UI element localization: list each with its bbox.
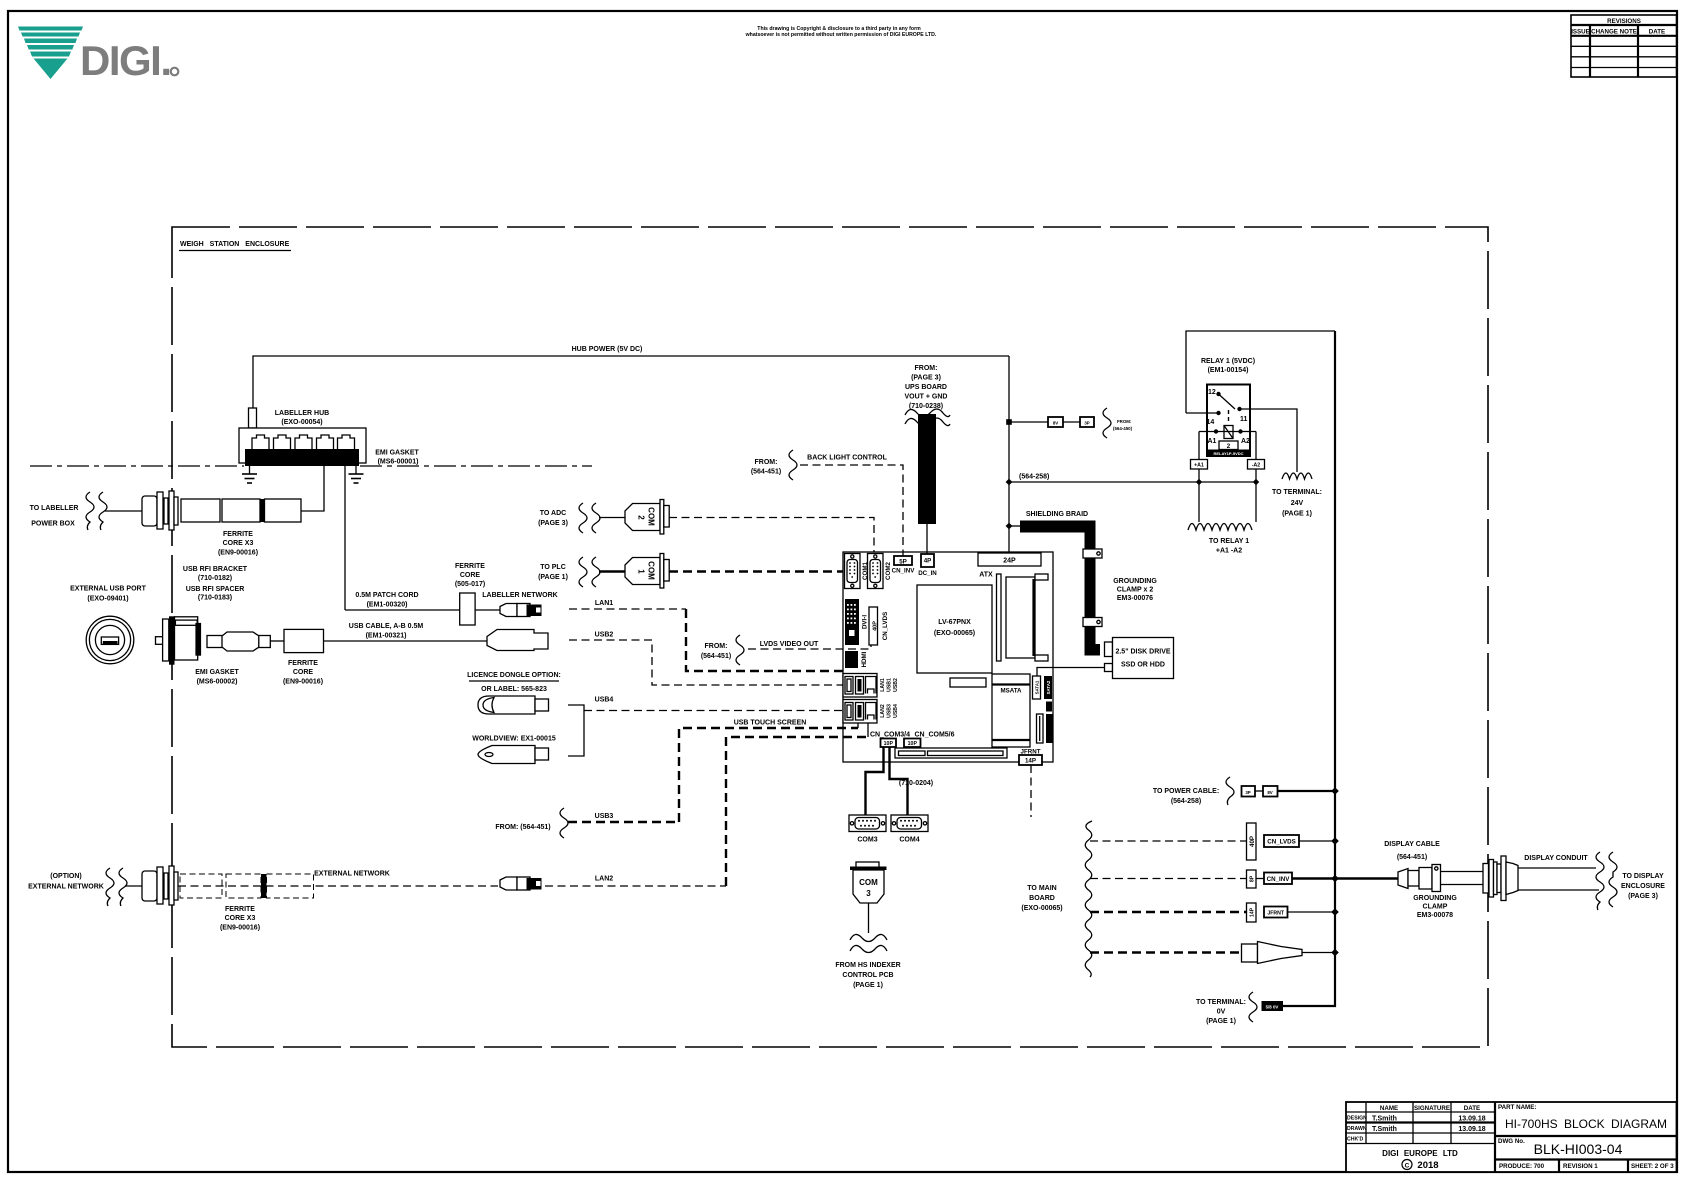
DIGI logo — [18, 27, 178, 85]
disk drive tab upper — [1105, 642, 1113, 657]
svg-text:4P: 4P — [924, 558, 932, 565]
svg-text:GROUNDING: GROUNDING — [1413, 895, 1457, 902]
svg-text:SIGNATURE: SIGNATURE — [1414, 1105, 1450, 1112]
svg-text:13.09.18: 13.09.18 — [1458, 1116, 1485, 1123]
hub RJ45 jack 4 — [317, 435, 334, 452]
svg-text:LVDS VIDEO OUT: LVDS VIDEO OUT — [760, 641, 819, 648]
svg-text:(564-258): (564-258) — [1019, 474, 1049, 481]
wire 564-258 — [1009, 481, 1256, 483]
wire hub to ferrite cores — [301, 466, 324, 511]
svg-text:3: 3 — [866, 889, 871, 898]
usb4 bracket wire — [568, 705, 584, 756]
COM1 connector DB9 — [845, 554, 870, 589]
wire to com2 plug — [599, 517, 625, 519]
wire to com1 plug — [599, 570, 625, 572]
svg-text:(EM1-00320): (EM1-00320) — [367, 602, 408, 609]
svg-text:COM: COM — [859, 878, 878, 887]
svg-text:FERRITE: FERRITE — [223, 531, 253, 538]
JFRNT tag — [1264, 907, 1288, 918]
com3/4 cable wires 710-0204 — [866, 747, 884, 815]
svg-text:LV-67PNX: LV-67PNX — [938, 619, 971, 626]
svg-text:CORE X3: CORE X3 — [223, 540, 254, 547]
svg-text:USB3: USB3 — [595, 813, 614, 820]
usb cable B plug — [487, 630, 548, 651]
dashed ferrite boxes option — [180, 874, 222, 898]
grounding clamp lower — [1083, 618, 1102, 627]
svg-text:CLAMP x 2: CLAMP x 2 — [1117, 587, 1154, 594]
svg-text:DC_IN: DC_IN — [918, 570, 937, 577]
svg-text:SATA2: SATA2 — [1046, 680, 1051, 694]
svg-text:CN_INV: CN_INV — [892, 568, 916, 575]
fan header — [1046, 702, 1052, 712]
svg-text:SSD OR HDD: SSD OR HDD — [1121, 662, 1165, 669]
dongle DR label — [478, 696, 535, 714]
squiggle power cable — [1226, 777, 1234, 805]
svg-text:USB2: USB2 — [595, 632, 614, 639]
relay 1 box — [1207, 385, 1250, 457]
pci slot — [895, 748, 1007, 758]
svg-text:RELAY1P-5VDC: RELAY1P-5VDC — [1213, 451, 1243, 456]
ferrite core box — [284, 629, 324, 652]
svg-text:WEIGH STATION ENCLOSURE: WEIGH STATION ENCLOSURE — [180, 241, 290, 248]
svg-text:LICENCE DONGLE OPTION:: LICENCE DONGLE OPTION: — [467, 672, 561, 679]
svg-text:(564-451): (564-451) — [1397, 854, 1427, 861]
svg-text:FROM:: FROM: — [705, 643, 728, 650]
svg-text:(EXO-00065): (EXO-00065) — [934, 630, 975, 637]
svg-text:24P: 24P — [1003, 558, 1016, 565]
svg-text:TO RELAY 1: TO RELAY 1 — [1209, 538, 1249, 545]
ferrite core 505-017 box — [460, 593, 475, 625]
power feed wire to ATX — [1008, 356, 1010, 553]
relay switch blade — [1219, 394, 1236, 409]
svg-text:1: 1 — [637, 569, 646, 574]
DVI connector — [845, 599, 859, 645]
svg-text:PRODUCE: 700: PRODUCE: 700 — [1499, 1163, 1545, 1170]
svg-text:(EXO-09401): (EXO-09401) — [87, 596, 128, 603]
LAN2 dashed wire to riser — [545, 885, 726, 887]
svg-text:ENCLOSURE: ENCLOSURE — [1621, 883, 1665, 890]
svg-text:(EN9-00016): (EN9-00016) — [218, 550, 258, 557]
svg-text:(EM1-00154): (EM1-00154) — [1208, 367, 1249, 374]
cable break squiggle power box — [86, 492, 94, 530]
svg-text:14P: 14P — [1025, 758, 1036, 765]
relay bottom band — [1207, 450, 1250, 457]
ferrite core x3 boxes — [181, 499, 220, 522]
weigh station enclosure dashed box — [172, 227, 1488, 1047]
hub RJ45 jack 3 — [295, 435, 312, 452]
svg-text:(PAGE 3): (PAGE 3) — [1628, 893, 1658, 900]
svg-text:TO ADC: TO ADC — [540, 510, 566, 517]
-A2 tag — [1255, 432, 1257, 483]
svg-text:OR LABEL: 565-823: OR LABEL: 565-823 — [481, 686, 547, 693]
svg-text:DATE: DATE — [1464, 1105, 1480, 1112]
node lvds — [1331, 837, 1339, 845]
squiggle to relay 1 — [1188, 524, 1252, 531]
USB2 dashed wire — [569, 640, 844, 685]
svg-text:(710-0183): (710-0183) — [198, 595, 232, 602]
display cable run — [1441, 871, 1484, 873]
svg-text:(PAGE 1): (PAGE 1) — [1282, 511, 1312, 518]
shielding braid bars — [1009, 525, 1020, 527]
svg-text:LAN1: LAN1 — [880, 678, 886, 692]
svg-text:13.09.18: 13.09.18 — [1458, 1126, 1485, 1133]
svg-text:COM: COM — [647, 507, 656, 526]
svg-text:2: 2 — [1227, 443, 1231, 450]
svg-text:(564-451): (564-451) — [701, 653, 731, 660]
SATA1 connector — [1033, 676, 1041, 699]
squiggle 0v — [1249, 992, 1257, 1022]
8P connector — [1247, 870, 1257, 888]
svg-text:(710-0204): (710-0204) — [899, 780, 933, 787]
svg-text:5P: 5P — [899, 559, 907, 566]
main board outline EXO-00065 — [843, 552, 1053, 762]
svg-text:CLAMP: CLAMP — [1423, 904, 1448, 911]
svg-text:(OPTION): (OPTION) — [50, 873, 82, 880]
svg-text:HUB POWER (5V DC): HUB POWER (5V DC) — [572, 346, 643, 353]
LAN2 heavy dashed riser — [726, 737, 868, 886]
svg-text:POWER BOX: POWER BOX — [31, 521, 75, 528]
svg-text:CORE: CORE — [460, 572, 481, 579]
svg-text:REVISIONS: REVISIONS — [1607, 18, 1641, 25]
wire hub to patch cord — [344, 466, 346, 610]
SATA wire to disk — [1037, 668, 1105, 677]
svg-text:CN_COM3/4: CN_COM3/4 — [870, 732, 910, 739]
svg-text:FERRITE: FERRITE — [288, 660, 318, 667]
labeller hub box — [239, 428, 366, 463]
svg-text:BLK-HI003-04: BLK-HI003-04 — [1534, 1141, 1623, 1157]
dashed lvds cable — [1090, 840, 1247, 842]
wires to relay break — [1198, 482, 1200, 522]
svg-text:CN_LVDS: CN_LVDS — [1267, 839, 1295, 846]
node -A2 — [1253, 479, 1259, 485]
svg-text:-A2: -A2 — [1252, 463, 1260, 469]
svg-text:8P: 8P — [1250, 875, 1256, 882]
svg-text:EXTERNAL NETWORK: EXTERNAL NETWORK — [314, 871, 390, 878]
svg-text:TO LABELLER: TO LABELLER — [30, 505, 79, 512]
svg-text:(EM1-00321): (EM1-00321) — [366, 633, 407, 640]
svg-text:HI-700HS BLOCK DIAGRAM: HI-700HS BLOCK DIAGRAM — [1505, 1117, 1667, 1131]
squiggle com2 — [579, 503, 587, 533]
hub power connector — [249, 408, 257, 428]
LAN2 USB3 USB4 stack — [843, 700, 899, 724]
svg-text:USB4: USB4 — [893, 704, 899, 718]
svg-text:DIGI.: DIGI. — [80, 37, 171, 84]
node braid — [1006, 523, 1013, 530]
svg-text:24V: 24V — [1291, 500, 1304, 507]
USB3 heavy dashed wire — [568, 821, 679, 823]
svg-text:(710-0182): (710-0182) — [198, 575, 232, 582]
svg-text:ATX: ATX — [979, 572, 993, 579]
10P header com5/6 — [904, 739, 921, 748]
svg-text:DISPLAY CABLE: DISPLAY CABLE — [1384, 841, 1440, 848]
USB3 squiggle — [560, 808, 568, 838]
wire to gland2 — [125, 885, 142, 887]
svg-text:USB CABLE, A-B 0.5M: USB CABLE, A-B 0.5M — [349, 623, 424, 630]
svg-text:3P: 3P — [1084, 421, 1089, 426]
wire hub power 5V DC — [253, 356, 1009, 408]
usb cable wire — [324, 640, 488, 642]
relay actuator link — [1228, 410, 1230, 424]
LAN1 dashed wire — [569, 608, 686, 610]
svg-text:FROM:: FROM: — [915, 365, 938, 372]
svg-text:VOUT + GND: VOUT + GND — [905, 394, 948, 401]
svg-text:2018: 2018 — [1417, 1160, 1438, 1171]
10P header com3/4 — [881, 739, 897, 748]
3P plug — [1080, 417, 1094, 427]
node +A1 — [1196, 479, 1202, 485]
svg-text:FROM HS INDEXER: FROM HS INDEXER — [835, 962, 900, 969]
relay pin 11 — [1237, 407, 1241, 411]
svg-text:LABELLER NETWORK: LABELLER NETWORK — [482, 592, 557, 599]
svg-text:LAN1: LAN1 — [595, 600, 613, 607]
COM4 connector DB9 — [891, 815, 928, 844]
com plugs and dongles — [345, 450, 903, 886]
LVDS VIDEO OUT dashed wire — [748, 645, 871, 649]
heavy wire inv to display — [1292, 877, 1398, 879]
hub RJ45 jack 2 — [274, 435, 291, 452]
svg-text:(EXO-00054): (EXO-00054) — [281, 419, 322, 426]
svg-text:USB4: USB4 — [595, 697, 614, 704]
svg-text:USB1: USB1 — [887, 678, 893, 692]
node inv — [1331, 875, 1339, 883]
power plug connector — [1242, 944, 1258, 962]
ATX 24P connector — [978, 553, 1041, 566]
svg-text:FROM: (564-451): FROM: (564-451) — [495, 824, 550, 831]
bottom right bus and display — [1021, 331, 1665, 1025]
usb panel connector — [156, 637, 164, 645]
wire pin11 to terminal — [1240, 409, 1298, 472]
svg-text:USB3: USB3 — [887, 704, 893, 718]
svg-text:CORE: CORE — [293, 669, 314, 676]
svg-text:(EN9-00016): (EN9-00016) — [220, 925, 260, 932]
svg-text:(PAGE 1): (PAGE 1) — [538, 574, 568, 581]
svg-text:LAN2: LAN2 — [595, 876, 613, 883]
svg-text:(564-451): (564-451) — [751, 469, 781, 476]
svg-text:TO MAIN: TO MAIN — [1027, 885, 1056, 892]
svg-text:TO POWER CABLE:: TO POWER CABLE: — [1153, 788, 1219, 795]
svg-text:USB2: USB2 — [893, 678, 899, 692]
svg-text:DWG No.: DWG No. — [1498, 1138, 1525, 1145]
usb touch screen heavy dashed riser — [679, 728, 858, 822]
svg-text:(564-450): (564-450) — [1113, 426, 1133, 431]
svg-text:FROM:: FROM: — [755, 459, 778, 466]
svg-text:COM: COM — [647, 561, 656, 580]
svg-text:FERRITE: FERRITE — [225, 906, 255, 913]
LAN1 USB1 USB2 stack — [843, 674, 899, 698]
svg-text:(564-258): (564-258) — [1171, 798, 1201, 805]
BACK LIGHT CONTROL dashed wire — [800, 465, 903, 556]
COM 1 plug — [625, 558, 660, 585]
CN_INV tag — [1264, 873, 1292, 885]
ext network dashed wire — [178, 885, 498, 887]
svg-text:(505-017): (505-017) — [455, 581, 485, 588]
svg-text:(MS6-00001): (MS6-00001) — [378, 459, 419, 466]
COM 3 plug — [850, 862, 887, 903]
svg-text:14P: 14P — [1250, 907, 1256, 917]
svg-text:CN_INV: CN_INV — [1267, 876, 1291, 883]
svg-text:LABELLER HUB: LABELLER HUB — [275, 410, 329, 417]
svg-text:DVI-I: DVI-I — [862, 615, 869, 629]
node plug — [1331, 949, 1339, 957]
display gland — [1483, 864, 1489, 894]
svg-text:A1: A1 — [1208, 438, 1217, 445]
svg-text:WORLDVIEW: EX1-00015: WORLDVIEW: EX1-00015 — [472, 736, 556, 743]
wire ups to dc_in — [926, 524, 928, 554]
svg-text:10P: 10P — [884, 741, 894, 747]
svg-text:2: 2 — [637, 515, 646, 520]
relay A1 A2 pins — [1199, 431, 1256, 433]
COM1 heavy dashed wire to board — [669, 570, 843, 572]
node 8v — [1006, 419, 1012, 425]
svg-text:GROUNDING: GROUNDING — [1113, 578, 1157, 585]
cable gland power box — [142, 496, 157, 526]
svg-text:CN_COM5/6: CN_COM5/6 — [914, 732, 954, 739]
CN_LVDS 40P connector — [869, 607, 878, 645]
svg-text:10P: 10P — [908, 741, 918, 747]
svg-text:PART NAME:: PART NAME: — [1498, 1104, 1536, 1111]
display grounding clamp — [1432, 865, 1441, 892]
CN_INV 5P header — [894, 556, 912, 565]
svg-text:+A1: +A1 — [1194, 463, 1204, 469]
COM3 connector DB9 — [849, 815, 886, 844]
svg-text:CHANGE NOTE: CHANGE NOTE — [1591, 29, 1637, 36]
DIMM socket — [997, 574, 1002, 661]
grounding clamp upper — [1083, 549, 1102, 558]
hub RJ45 jack 5 — [338, 435, 355, 452]
labeller network RJ45 plug — [500, 604, 517, 617]
motherboard — [835, 552, 1105, 989]
wire to bus — [1278, 790, 1336, 792]
svg-text:12: 12 — [1208, 389, 1216, 396]
svg-text:EM3-00076: EM3-00076 — [1117, 595, 1153, 602]
svg-text:CONTROL PCB: CONTROL PCB — [842, 972, 893, 979]
svg-text:(EXO-00065): (EXO-00065) — [1021, 905, 1062, 912]
svg-text:(EN9-00016): (EN9-00016) — [283, 679, 323, 686]
svg-text:40P: 40P — [873, 621, 879, 631]
DC_IN 4P header — [921, 554, 934, 567]
svg-text:JFRNT: JFRNT — [1267, 911, 1285, 917]
svg-text:EMI GASKET: EMI GASKET — [375, 450, 419, 457]
right bus wire — [1283, 331, 1335, 1006]
+A1 tag — [1198, 432, 1200, 483]
dashed plug cable — [1090, 951, 1242, 953]
ground symbol right of hub — [349, 466, 364, 483]
svg-text:DIGI EUROPE LTD: DIGI EUROPE LTD — [1382, 1149, 1458, 1158]
disk drive tab lower — [1105, 664, 1113, 672]
svg-text:C: C — [1405, 1162, 1410, 1169]
svg-text:COM3: COM3 — [857, 837, 877, 844]
svg-text:14: 14 — [1207, 419, 1215, 426]
svg-text:TO TERMINAL:: TO TERMINAL: — [1196, 999, 1246, 1006]
2.5 disk drive box — [1113, 638, 1174, 679]
squiggle 24v — [1282, 473, 1312, 479]
svg-text:REVISION 1: REVISION 1 — [1563, 1163, 1598, 1170]
USB4 dashed wire — [584, 710, 844, 712]
svg-text:(MS6-00002): (MS6-00002) — [197, 679, 238, 686]
small header below cpu — [950, 678, 986, 687]
svg-text:11: 11 — [1240, 416, 1248, 423]
svg-text:TO TERMINAL:: TO TERMINAL: — [1272, 489, 1322, 496]
svg-text:MSATA: MSATA — [1000, 688, 1022, 695]
svg-text:USB TOUCH SCREEN: USB TOUCH SCREEN — [734, 720, 807, 727]
svg-text:5/8 0V: 5/8 0V — [1266, 1005, 1279, 1010]
COM 2 plug — [625, 504, 660, 531]
patch cord wire — [345, 609, 460, 611]
svg-text:ISSUE: ISSUE — [1571, 29, 1590, 36]
title block — [1346, 1102, 1677, 1172]
svg-text:USB RFI SPACER: USB RFI SPACER — [186, 586, 245, 593]
relay 2 box — [1219, 441, 1238, 450]
JFRNT dashed stub — [1030, 765, 1032, 817]
svg-text:T.Smith: T.Smith — [1372, 1116, 1397, 1123]
svg-text:(PAGE 1): (PAGE 1) — [1206, 1018, 1236, 1025]
svg-text:T.Smith: T.Smith — [1372, 1126, 1397, 1133]
ups / braid / disk / relay — [905, 331, 1335, 679]
conduit lines — [1518, 867, 1596, 869]
wire ferrite to rj45 — [475, 609, 500, 611]
enclosure panel chain line — [30, 465, 244, 467]
svg-text:COM4: COM4 — [899, 837, 919, 844]
svg-text:UPS BOARD: UPS BOARD — [905, 384, 947, 391]
svg-text:USB RFI BRACKET: USB RFI BRACKET — [183, 566, 248, 573]
LV-67PNX cpu box — [917, 585, 992, 673]
svg-text:(PAGE 3): (PAGE 3) — [538, 520, 568, 527]
svg-text:SHEET: 2 OF 3: SHEET: 2 OF 3 — [1631, 1163, 1674, 1170]
svg-text:RELAY 1 (5VDC): RELAY 1 (5VDC) — [1201, 358, 1255, 365]
svg-text:CORE X3: CORE X3 — [225, 915, 256, 922]
squiggle ups — [905, 409, 950, 417]
svg-text:EM3-00078: EM3-00078 — [1417, 912, 1453, 919]
ups cable black bar — [918, 414, 936, 524]
squiggle lvds — [736, 635, 744, 665]
svg-text:LAN2: LAN2 — [880, 704, 886, 718]
svg-text:EMI GASKET: EMI GASKET — [195, 669, 239, 676]
svg-text:DISPLAY CONDUIT: DISPLAY CONDUIT — [1524, 855, 1588, 862]
svg-text:FERRITE: FERRITE — [455, 563, 485, 570]
svg-text:HDMI: HDMI — [861, 651, 868, 667]
wire to 8V plug — [1009, 421, 1048, 423]
MSATA connector — [992, 674, 1030, 747]
dashed inv cable — [1090, 878, 1247, 880]
cable break squiggle ext network — [106, 868, 114, 906]
svg-text:BOARD: BOARD — [1029, 895, 1055, 902]
svg-text:NAME: NAME — [1380, 1105, 1398, 1112]
CN_LVDS tag — [1264, 835, 1299, 847]
squiggle hs indexer — [850, 934, 887, 941]
usb plug chain — [207, 636, 223, 648]
svg-text:DATE: DATE — [1649, 29, 1665, 36]
svg-text:0V: 0V — [1217, 1009, 1226, 1016]
svg-text:(PAGE 3): (PAGE 3) — [911, 375, 941, 382]
svg-text:TO PLC: TO PLC — [540, 564, 566, 571]
display cable connector — [1398, 869, 1408, 889]
svg-text:DESIGN: DESIGN — [1347, 1116, 1367, 1122]
svg-text:40P: 40P — [1249, 836, 1256, 847]
COM2 dashed wire to board — [669, 518, 874, 553]
wire com3 plug down — [868, 903, 870, 933]
ext network RJ45 plug — [500, 877, 517, 890]
SATA2 connector — [1044, 676, 1052, 699]
svg-text:SHIELDING BRAID: SHIELDING BRAID — [1026, 511, 1088, 518]
node power — [1331, 787, 1339, 795]
node jfrnt — [1331, 908, 1339, 916]
external usb port face — [86, 616, 134, 664]
svg-text:EXTERNAL NETWORK: EXTERNAL NETWORK — [28, 884, 104, 891]
squiggle 564-450 — [1103, 408, 1111, 438]
svg-text:(PAGE 1): (PAGE 1) — [853, 982, 883, 989]
svg-text:BACK LIGHT CONTROL: BACK LIGHT CONTROL — [807, 455, 887, 462]
ground symbol left of hub — [242, 466, 257, 483]
